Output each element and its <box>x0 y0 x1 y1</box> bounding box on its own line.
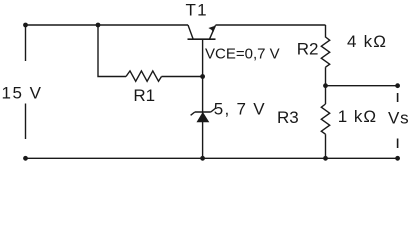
wire divider node to output terminal <box>326 85 398 87</box>
svg-text:VCE=0,7 V: VCE=0,7 V <box>205 46 280 63</box>
junction dot divider node <box>323 83 328 88</box>
junction dot top rail at R1 drop <box>96 23 101 28</box>
svg-text:R1: R1 <box>133 86 155 105</box>
transistor Q T1 collector lead <box>188 25 193 39</box>
svg-text:1 kΩ: 1 kΩ <box>338 107 377 126</box>
junction dot R3 at bottom rail <box>323 156 328 161</box>
wire output port top dash <box>397 93 399 102</box>
junction dot base node (R1 / zener / base) <box>200 74 205 79</box>
wire R1 right lead to base node <box>162 76 203 78</box>
svg-text:5, 7 V: 5, 7 V <box>214 99 266 118</box>
svg-text:Vs: Vs <box>388 109 409 128</box>
zener diode cathode left wing <box>191 112 195 115</box>
transistor Q T1 emitter lead <box>210 25 216 39</box>
wire source 15 V bottom terminal stub <box>25 104 27 140</box>
svg-text:R3: R3 <box>277 108 299 127</box>
svg-text:15 V: 15 V <box>2 84 43 103</box>
transistor Q T1 emitter arrow <box>208 26 215 33</box>
terminal dot output plus <box>395 83 400 88</box>
svg-text:T1: T1 <box>186 1 208 20</box>
wire R2 bottom lead to divider node <box>325 67 327 86</box>
resistor R3 <box>321 104 329 134</box>
wire bottom rail (ground return) <box>26 157 398 159</box>
svg-text:R2: R2 <box>297 40 319 59</box>
resistor R2 <box>321 37 329 67</box>
resistor R1 <box>126 71 162 81</box>
wire source 15 V top terminal stub <box>25 25 27 61</box>
zener diode cathode right wing <box>211 109 215 113</box>
wire drop from top rail node to R1 <box>98 25 126 77</box>
zener diode cathode bar <box>195 111 211 113</box>
wire R2 top lead <box>325 25 327 38</box>
terminal dot output minus <box>395 156 400 161</box>
wire base node vertical (T1 base to zener to bottom rail) <box>202 39 204 158</box>
wire R3 bottom lead <box>325 134 327 158</box>
zener diode D1 anode triangle <box>197 112 210 122</box>
wire top rail left (from 15 V source to T1 collector) <box>26 24 189 26</box>
transistor Q T1 base bar <box>188 38 216 40</box>
junction dot bottom-left corner <box>23 156 28 161</box>
wire top rail right (T1 emitter to R2) <box>216 24 326 26</box>
wire output port bottom dash <box>397 139 399 149</box>
junction dot top-left corner <box>23 23 28 28</box>
wire R3 top lead <box>325 86 327 104</box>
svg-text:4 kΩ: 4 kΩ <box>347 32 387 51</box>
junction dot zener at bottom rail <box>200 156 205 161</box>
